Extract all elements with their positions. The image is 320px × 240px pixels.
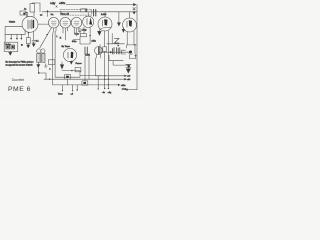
svg-text:P.Mels: P.Mels bbox=[9, 21, 15, 23]
svg-text:J.n.: J.n. bbox=[51, 14, 55, 16]
tube V4 inner text bbox=[74, 21, 79, 25]
ground mark bbox=[44, 64, 47, 67]
tube V8 dark electrodes bbox=[71, 52, 74, 59]
wire bottom bus 3 bbox=[96, 75, 125, 77]
ground symbol top right bbox=[133, 10, 136, 14]
plus mark bbox=[135, 55, 137, 57]
K1 dark element bbox=[23, 13, 25, 15]
wire V6 top bbox=[104, 12, 106, 17]
wire comp row bottom bbox=[99, 51, 131, 53]
wire mid drops bbox=[85, 55, 96, 81]
tube V2 bbox=[48, 17, 59, 28]
node dot bbox=[89, 35, 90, 36]
coil Z symbol bbox=[114, 38, 119, 43]
node dark mark bbox=[21, 44, 23, 46]
capacitor CA lead bbox=[99, 45, 101, 48]
wire bottom bus 2 bbox=[53, 84, 119, 86]
transformer T1 winding circles bbox=[37, 49, 41, 53]
capacitor C2 bbox=[32, 32, 35, 43]
ground arrow below C4 bbox=[126, 69, 130, 73]
svg-text:C 2n: C 2n bbox=[75, 34, 79, 36]
wire horiz right bbox=[107, 34, 125, 44]
svg-text:0.5m: 0.5m bbox=[72, 41, 77, 43]
terminal tick third bbox=[76, 85, 78, 90]
svg-text:+4v: +4v bbox=[50, 2, 56, 6]
node star mark bbox=[56, 6, 58, 8]
wire V7 top bbox=[129, 12, 131, 18]
node dot bbox=[110, 51, 112, 53]
tube V5 bbox=[83, 16, 94, 27]
shield dashed box bbox=[61, 9, 92, 15]
capacitor C3 bbox=[85, 47, 87, 54]
svg-text:Ducretet: Ducretet bbox=[12, 78, 24, 82]
cathode arrow V7 bbox=[122, 27, 125, 32]
wire V1 to V2 bbox=[38, 23, 49, 25]
capacitor bracket right bbox=[122, 50, 126, 54]
fuse box bbox=[75, 68, 81, 72]
cadre cell 2 bbox=[11, 45, 15, 49]
switch contact drops bbox=[11, 34, 21, 38]
component K1 top left bbox=[20, 11, 26, 15]
node dot bbox=[71, 70, 72, 71]
ground arrow below R3 bbox=[27, 44, 29, 45]
node dot on bus1 bbox=[49, 79, 50, 80]
bottom bus arrowhead bbox=[125, 89, 127, 90]
node dot bbox=[47, 34, 48, 35]
tube V1 bbox=[22, 16, 38, 32]
ground arrow left of V8 bbox=[60, 62, 63, 69]
wire bottom right bus bbox=[127, 89, 137, 91]
node dot bbox=[28, 32, 29, 33]
wire drops from V7 bbox=[127, 31, 134, 45]
tube V4 bbox=[71, 17, 82, 28]
ground arrow below cadre bbox=[9, 51, 12, 55]
wire drops from V6 bbox=[105, 31, 109, 88]
wire corner right bbox=[130, 55, 136, 59]
svg-text:u: u bbox=[49, 68, 50, 70]
capacitor C5 dark on bus1 bbox=[65, 75, 71, 80]
tube V5 dark electrode bbox=[89, 18, 92, 25]
resistor R6 bbox=[103, 47, 107, 52]
wire comp row top bbox=[127, 45, 137, 54]
terminal ticks below bus2 bbox=[63, 85, 73, 91]
wire HT bus arrowhead bbox=[133, 4, 136, 6]
ground arrow below V8 bbox=[70, 61, 73, 64]
wire R3 top bbox=[27, 33, 29, 38]
tube V2 inner text bbox=[51, 21, 56, 25]
svg-text:PME 6: PME 6 bbox=[8, 86, 31, 93]
capacitor C4 dark bbox=[126, 64, 131, 67]
resistor R5 bbox=[81, 34, 87, 37]
svg-text:a bat: a bat bbox=[122, 87, 127, 90]
box inside shield bbox=[81, 9, 87, 12]
svg-text:B.443: B.443 bbox=[101, 14, 107, 16]
wire below C5 bbox=[67, 79, 69, 85]
wire horiz below R5 bbox=[73, 36, 90, 44]
IF transformer bars 515 bbox=[113, 48, 120, 55]
arrow head bbox=[117, 23, 120, 26]
ground arrow below C2 bbox=[32, 42, 35, 47]
wire to V1 pin bbox=[24, 30, 26, 35]
capacitor CA dark bar bbox=[98, 47, 100, 54]
node dot bbox=[134, 44, 135, 45]
tube V6 bbox=[98, 17, 112, 31]
terminal verticals right group bbox=[97, 76, 99, 89]
wire right step horizontals bbox=[109, 55, 128, 65]
svg-text:+80v: +80v bbox=[59, 1, 66, 5]
capacitor C1 top bbox=[94, 9, 96, 16]
capacitor C6 dark on bus2 bbox=[82, 81, 88, 85]
wire V4 pins down bbox=[74, 28, 79, 36]
wire main top bus bbox=[42, 11, 137, 13]
node dots on buses bbox=[104, 75, 105, 76]
tube V6 dark electrode bbox=[104, 19, 107, 25]
svg-text:+80v: +80v bbox=[121, 85, 125, 87]
wire right vertical bus bbox=[136, 5, 138, 90]
svg-text:Bicau .22: Bicau .22 bbox=[61, 14, 70, 16]
node dark dot with arc bbox=[129, 51, 132, 54]
tube V3 bbox=[60, 17, 71, 28]
ground arrow below T1 bbox=[37, 62, 40, 67]
tube V7 dark electrode bbox=[129, 20, 132, 26]
wire left vertical bbox=[4, 27, 6, 43]
cadre box bbox=[4, 42, 18, 51]
svg-text:un appareil de mesure batterie: un appareil de mesure batterie bbox=[6, 64, 34, 67]
wire T1 to bus bbox=[38, 68, 46, 79]
antenna cross mark bbox=[133, 8, 135, 10]
small box on vertical pair bbox=[48, 60, 55, 65]
wire bottom bus 1 bbox=[44, 78, 125, 80]
wire K1 lead bbox=[26, 11, 28, 13]
wire drop to V2 bbox=[47, 12, 49, 17]
tube V3 inner text bbox=[63, 21, 68, 25]
node dot V4 lead bbox=[79, 31, 80, 32]
wire left antenna pair bbox=[5, 27, 25, 35]
bus terminal arrows bbox=[118, 75, 126, 86]
wire V5 top bbox=[87, 12, 89, 16]
svg-text:Ne demonter les PM6a qu'avec: Ne demonter les PM6a qu'avec bbox=[6, 61, 34, 64]
wire V3 pins down bbox=[63, 28, 68, 40]
wire V2 pins down bbox=[40, 28, 56, 48]
resistor R3 vertical bbox=[26, 38, 30, 44]
svg-text:2.5in: 2.5in bbox=[92, 40, 96, 42]
wire cathode curve V6 bbox=[99, 27, 111, 31]
svg-text:Ev. Trans: Ev. Trans bbox=[62, 46, 70, 48]
svg-text:Cadre: Cadre bbox=[5, 44, 11, 46]
svg-text:Fusee: Fusee bbox=[76, 63, 83, 65]
wire mid verticals bbox=[53, 31, 55, 85]
resistor R2 vertical top bbox=[30, 4, 35, 12]
node dot bbox=[38, 72, 40, 74]
transformer T1 core boxes bbox=[37, 54, 41, 63]
ground arrow below V6 bbox=[98, 31, 102, 35]
transformer circle T2 bbox=[95, 47, 103, 55]
wire drops below V5 bbox=[80, 27, 90, 36]
svg-text:+4v: +4v bbox=[127, 76, 130, 78]
tube V7 bbox=[123, 18, 137, 32]
node junction dot bbox=[47, 10, 49, 12]
wire V1 top leads bbox=[26, 12, 34, 17]
cadre cell 1 bbox=[6, 45, 10, 49]
wire top link bbox=[28, 3, 41, 16]
wire mid horizontals bbox=[55, 71, 102, 78]
svg-text:+6v: +6v bbox=[127, 79, 130, 81]
wire arrow between V6 V7 bbox=[118, 12, 120, 23]
svg-text:n: n bbox=[118, 45, 119, 47]
tube V8 bbox=[63, 48, 76, 61]
tube V1 electrodes bbox=[28, 20, 32, 29]
wire top HT bus bbox=[66, 4, 135, 6]
